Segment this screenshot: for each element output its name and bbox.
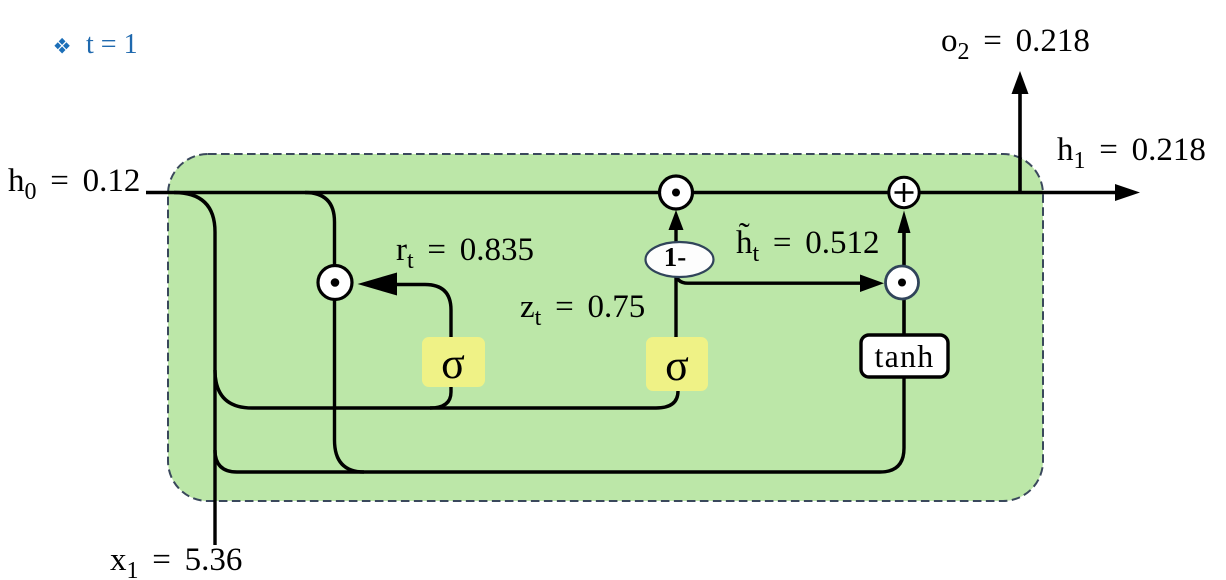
bullet diamond xyxy=(54,38,69,54)
GRU cell body (green rounded dashed box) xyxy=(168,154,1043,501)
sigma box 1 (reset gate) xyxy=(422,337,485,387)
wire: main h horizontal line xyxy=(146,191,1122,194)
svg-text:σ: σ xyxy=(665,341,689,390)
svg-text:tanh: tanh xyxy=(875,338,935,374)
svg-text:h1 = 0.218: h1 = 0.218 xyxy=(1057,132,1206,174)
wire: sigma2 up through 1- to h-line product xyxy=(674,228,677,340)
arrowhead into plus xyxy=(898,211,911,234)
wire: branch from z wire to candidate product xyxy=(676,272,860,283)
svg-text:o2 = 0.218: o2 = 0.218 xyxy=(941,23,1090,65)
arrowhead into candidate product xyxy=(860,275,884,293)
wire: second vertical B through reset product xyxy=(305,193,364,473)
product node on h-line (circle dot) xyxy=(660,176,693,209)
wire: tanh output up to candidate product xyxy=(902,297,906,338)
wire: o2 output vertical arrow xyxy=(1018,92,1022,193)
candidate product node (navy) xyxy=(886,266,919,299)
wire: candidate product up to plus xyxy=(902,232,906,267)
wire: sigma1 bottom stub onto line 1 xyxy=(430,387,451,408)
arrowhead z into h-line product xyxy=(669,210,684,230)
reset product node xyxy=(318,266,352,300)
tanh box xyxy=(861,335,948,377)
arrowhead r_t into product xyxy=(358,273,398,296)
sigma box 2 (update gate) xyxy=(646,337,708,391)
svg-text:h0 = 0.12: h0 = 0.12 xyxy=(8,163,140,205)
wire: branch A into line 2 xyxy=(215,377,904,472)
arrowhead o2 output up xyxy=(1012,71,1029,94)
svg-text:x1 = 5.36: x1 = 5.36 xyxy=(110,542,242,580)
plus node on h-line xyxy=(889,177,919,207)
wire: branch A into gate-input line 1 xyxy=(215,370,678,408)
wire: left vertical A from h-line down to x1 input xyxy=(174,193,215,546)
svg-text:rt = 0.835: rt = 0.835 xyxy=(396,232,534,274)
wire: sigma1 top to reset product arrow xyxy=(396,285,451,341)
svg-text:σ: σ xyxy=(441,339,465,388)
svg-text:1-: 1- xyxy=(664,242,687,272)
1- ellipse xyxy=(646,242,714,277)
svg-text:t = 1: t = 1 xyxy=(86,29,138,60)
arrowhead h1 output right xyxy=(1115,184,1140,201)
